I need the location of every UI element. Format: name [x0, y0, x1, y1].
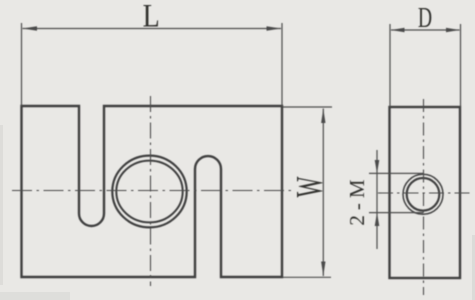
2-M dimension line vertical	[376, 150, 378, 249]
horizontal centerline (side view)	[378, 192, 470, 194]
2-M dimension extension line bottom	[369, 212, 424, 214]
2-M arrowhead lower (pointing up)	[375, 213, 380, 226]
2-M dimension extension line top	[369, 172, 424, 174]
svg-text:W: W	[288, 176, 331, 197]
front view outline (S-shaped block)	[22, 106, 283, 277]
D dimension extension line right	[460, 24, 462, 107]
W dimension extension line top	[283, 106, 332, 108]
threaded hole outer circle (thread crest)	[403, 174, 443, 214]
2-M arrowhead upper (pointing down)	[375, 160, 380, 173]
horizontal centerline (front view)	[12, 190, 291, 192]
L arrowhead right	[267, 26, 282, 30]
scan smudge left edge	[0, 125, 3, 285]
L arrowhead left	[23, 26, 38, 30]
D arrowhead left	[391, 28, 405, 33]
center hole inner circle	[116, 161, 182, 223]
scan smudge right edge	[472, 235, 475, 300]
svg-text:2-M: 2-M	[345, 174, 369, 225]
threaded hole inner circle	[407, 178, 440, 211]
W dimension extension line bottom	[283, 276, 331, 278]
svg-text:D: D	[418, 2, 432, 34]
svg-text:L: L	[143, 0, 160, 34]
vertical centerline (side view)	[423, 99, 425, 295]
L dimension extension line left	[21, 23, 23, 106]
L dimension line	[23, 28, 282, 30]
center hole outer circle	[112, 156, 186, 228]
D dimension line	[391, 29, 460, 31]
W arrowhead bottom	[321, 262, 325, 277]
W dimension line	[322, 109, 324, 277]
vertical centerline (front view)	[150, 96, 152, 286]
side view outline rectangle	[390, 107, 461, 278]
L dimension extension line right	[281, 23, 283, 106]
D arrowhead right	[446, 28, 460, 33]
scan smudge bottom-left	[0, 292, 70, 300]
D dimension extension line left	[389, 24, 391, 107]
W arrowhead top	[321, 109, 325, 124]
